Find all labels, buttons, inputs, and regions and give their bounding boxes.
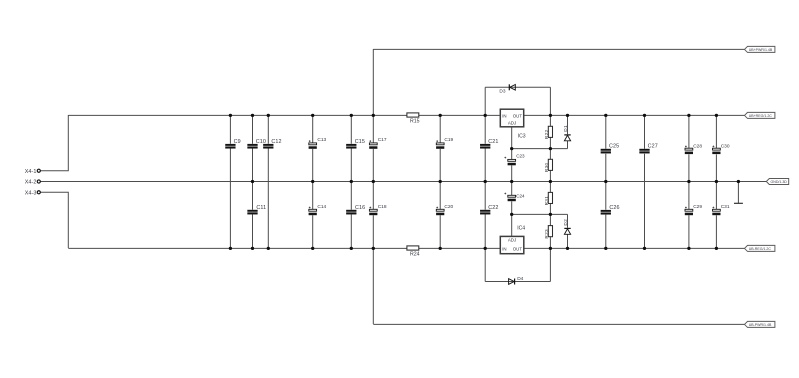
svg-text:UB+REG/1.2C: UB+REG/1.2C [749,114,773,118]
svg-text:C12: C12 [271,139,281,145]
svg-text:R23: R23 [544,229,549,239]
svg-text:C14: C14 [317,204,326,210]
svg-text:UB+PWR/1.4B: UB+PWR/1.4B [749,48,773,52]
svg-text:X4-3: X4-3 [25,191,37,197]
svg-text:IN: IN [502,246,506,251]
svg-text:C11: C11 [256,205,266,211]
svg-text:D1: D1 [563,125,568,132]
svg-text:C18: C18 [378,204,387,210]
svg-text:C25: C25 [609,144,619,150]
svg-text:C13: C13 [317,137,326,143]
svg-text:C20: C20 [444,204,453,210]
svg-text:R22: R22 [544,130,549,140]
svg-text:C16: C16 [355,205,365,211]
svg-text:C23: C23 [516,154,525,159]
svg-text:ADJ: ADJ [508,121,516,126]
svg-text:C22: C22 [488,205,498,211]
svg-text:IC3: IC3 [518,133,526,139]
svg-text:R31: R31 [544,196,549,206]
svg-text:R15: R15 [410,118,420,124]
svg-text:R30: R30 [544,163,549,173]
svg-text:C30: C30 [721,143,730,149]
svg-text:C27: C27 [648,144,658,150]
svg-text:X4-2: X4-2 [25,180,37,186]
svg-text:GND/1.3D: GND/1.3D [771,180,788,184]
svg-text:C15: C15 [355,139,365,145]
svg-text:C17: C17 [378,137,387,143]
svg-text:C26: C26 [609,205,619,211]
svg-text:C31: C31 [721,204,730,210]
svg-text:X4-1: X4-1 [25,169,37,175]
svg-text:IN: IN [502,113,506,118]
svg-text:C28: C28 [693,143,702,149]
svg-text:IC4: IC4 [517,225,525,231]
svg-text:D2: D2 [563,219,568,226]
svg-text:UB-PWR/1.4B: UB-PWR/1.4B [749,323,772,327]
svg-text:UB-REG/1.2C: UB-REG/1.2C [749,247,772,251]
svg-text:C21: C21 [488,139,498,145]
svg-text:C24: C24 [516,193,525,198]
svg-text:C9: C9 [234,139,241,145]
svg-text:D4: D4 [517,276,523,282]
svg-text:OUT: OUT [513,113,523,118]
svg-text:C19: C19 [444,137,453,143]
svg-text:ADJ: ADJ [508,238,516,243]
svg-text:C29: C29 [693,204,702,210]
svg-text:R24: R24 [410,251,420,257]
svg-text:D3: D3 [499,88,505,94]
svg-text:C10: C10 [256,139,266,145]
svg-text:OUT: OUT [513,246,523,251]
